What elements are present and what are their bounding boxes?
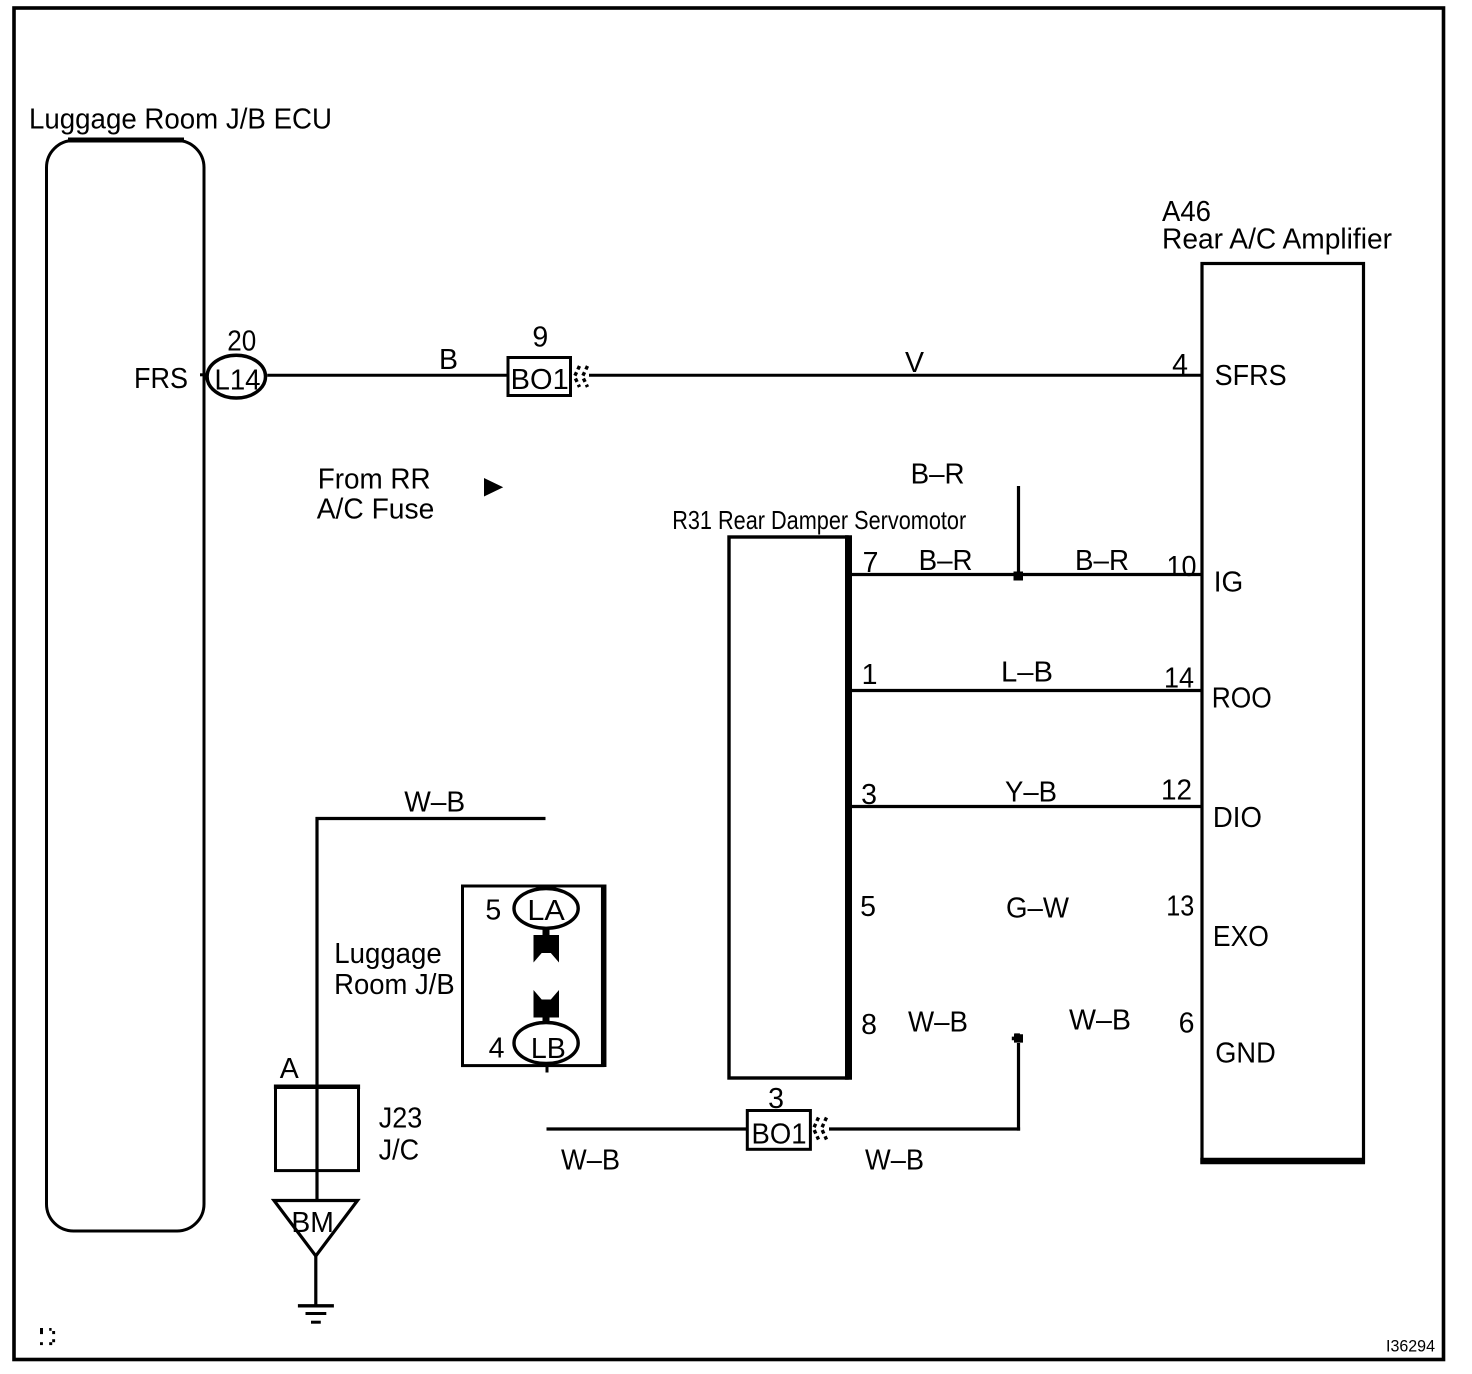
ground symbol bar 2 [306, 1312, 327, 1315]
servomotor R31 body [729, 537, 847, 1078]
ground point BM triangle [274, 1201, 358, 1257]
junction mark W-B [1012, 1033, 1023, 1042]
svg-text:9: 9 [532, 321, 548, 353]
svg-text:SFRS: SFRS [1215, 360, 1287, 392]
wire W-B vertical branch down [1017, 1043, 1020, 1131]
ground symbol bar 1 [298, 1304, 334, 1307]
svg-text:Room J/B: Room J/B [334, 969, 455, 1001]
svg-text:BO1: BO1 [511, 364, 569, 396]
J/B ECU bold top edge [68, 138, 184, 143]
stub below LB [546, 1065, 549, 1073]
junction dot B-R [1014, 572, 1024, 581]
svg-text:4: 4 [1172, 349, 1188, 381]
svg-text:1: 1 [862, 659, 878, 691]
junction block Luggage Room J/B body [463, 886, 604, 1066]
svg-text:I36294: I36294 [1386, 1338, 1435, 1356]
svg-text:A/C Fuse: A/C Fuse [317, 494, 435, 526]
svg-text:L14: L14 [215, 364, 261, 396]
svg-text:6: 6 [1179, 1008, 1195, 1040]
page mark dots (bottom left) [40, 1328, 55, 1345]
pointer arrow [484, 478, 503, 497]
svg-text:W–B: W–B [865, 1145, 924, 1177]
svg-text:Y–B: Y–B [1005, 777, 1057, 809]
svg-text:W–B: W–B [908, 1007, 968, 1039]
svg-text:L–B: L–B [1001, 657, 1053, 689]
connector LB oval [514, 1023, 578, 1064]
connector BO1 box (bottom) [747, 1111, 810, 1150]
svg-text:W–B: W–B [561, 1145, 620, 1177]
wire stub FRS to L14 [200, 373, 208, 376]
wire B-R vertical branch [1017, 486, 1020, 575]
connector L14 oval [207, 355, 265, 398]
svg-text:4: 4 [489, 1033, 505, 1065]
fork contact below LA [534, 930, 560, 963]
wire W-B from LB to BO1 (bottom) [547, 1127, 747, 1130]
svg-text:13: 13 [1166, 891, 1194, 923]
svg-text:12: 12 [1161, 775, 1192, 807]
wire Y-B from R31 pin 3 to A46 pin 12 [850, 805, 1202, 808]
amplifier A46 bold bottom edge [1200, 1158, 1365, 1165]
svg-text:GND: GND [1215, 1038, 1276, 1070]
wire W-B horizontal (ground run) [316, 817, 546, 820]
svg-text:A: A [280, 1053, 299, 1085]
ground symbol bar 3 [311, 1321, 321, 1324]
svg-text:From RR: From RR [318, 464, 431, 496]
connector chevrons after BO1 (bottom) [814, 1118, 819, 1140]
wire L-B from R31 pin 1 to A46 pin 14 [850, 689, 1202, 692]
svg-text:LB: LB [531, 1033, 566, 1065]
junction block bold right edge [601, 885, 607, 1068]
svg-text:B–R: B–R [919, 545, 973, 577]
svg-text:J23: J23 [379, 1102, 423, 1134]
svg-text:5: 5 [485, 894, 501, 926]
connector BO1 box (top) [508, 358, 571, 396]
svg-text:G–W: G–W [1006, 893, 1069, 925]
wire B-R from R31 pin 7 to A46 pin 10 [850, 573, 1202, 576]
svg-text:Rear A/C Amplifier: Rear A/C Amplifier [1162, 223, 1392, 255]
svg-text:FRS: FRS [134, 363, 188, 395]
svg-text:ROO: ROO [1212, 682, 1272, 714]
wire W-B horizontal to BO1 (bottom) [829, 1127, 1020, 1130]
svg-text:J/C: J/C [379, 1135, 420, 1167]
svg-text:10: 10 [1167, 551, 1197, 583]
svg-text:DIO: DIO [1213, 802, 1262, 834]
junction connector J23 body [276, 1087, 359, 1171]
svg-text:W–B: W–B [1069, 1005, 1131, 1037]
svg-text:BM: BM [291, 1207, 334, 1239]
svg-text:B–R: B–R [911, 459, 965, 491]
svg-text:V: V [905, 347, 924, 379]
svg-text:BO1: BO1 [752, 1119, 807, 1151]
svg-text:Luggage Room J/B ECU: Luggage Room J/B ECU [29, 103, 332, 135]
svg-text:Luggage: Luggage [334, 938, 442, 970]
fork contact above LB [534, 990, 560, 1022]
wire from BM to ground [314, 1256, 317, 1305]
svg-text:IG: IG [1214, 567, 1244, 599]
junction connector J23 bold top edge [274, 1085, 360, 1090]
wire V from BO1 to A46 pin 4 [589, 374, 1202, 377]
connector LA oval [514, 889, 578, 929]
svg-text:EXO: EXO [1213, 921, 1269, 953]
amplifier A46 body [1202, 264, 1364, 1163]
svg-text:8: 8 [861, 1009, 877, 1041]
svg-text:14: 14 [1164, 663, 1194, 695]
junction block J/B ECU body [47, 141, 205, 1232]
svg-text:B–R: B–R [1075, 545, 1129, 577]
wire W-B vertical to J23 [315, 817, 318, 1200]
svg-text:R31 Rear Damper Servomotor: R31 Rear Damper Servomotor [672, 505, 966, 535]
svg-text:B: B [439, 344, 458, 376]
svg-text:LA: LA [527, 895, 565, 927]
servomotor R31 bold right edge [845, 535, 852, 1079]
wire B from L14 to BO1 [267, 374, 508, 377]
svg-text:20: 20 [227, 326, 256, 358]
connector chevrons after BO1 (top) [575, 366, 580, 387]
svg-text:5: 5 [860, 891, 876, 923]
svg-text:W–B: W–B [404, 787, 465, 819]
